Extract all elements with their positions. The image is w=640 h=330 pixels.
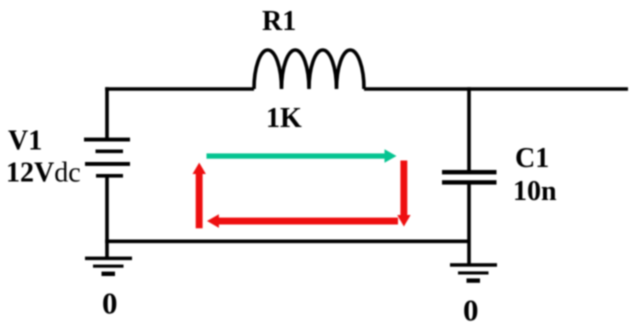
svg-text:R1: R1 [262, 6, 296, 37]
svg-text:12Vdc: 12Vdc [6, 158, 81, 189]
svg-text:10n: 10n [513, 176, 557, 207]
svg-text:0: 0 [463, 293, 479, 328]
svg-text:C1: C1 [515, 143, 549, 174]
svg-text:1K: 1K [266, 103, 302, 134]
svg-text:0: 0 [102, 286, 118, 321]
svg-text:V1: V1 [8, 126, 42, 157]
